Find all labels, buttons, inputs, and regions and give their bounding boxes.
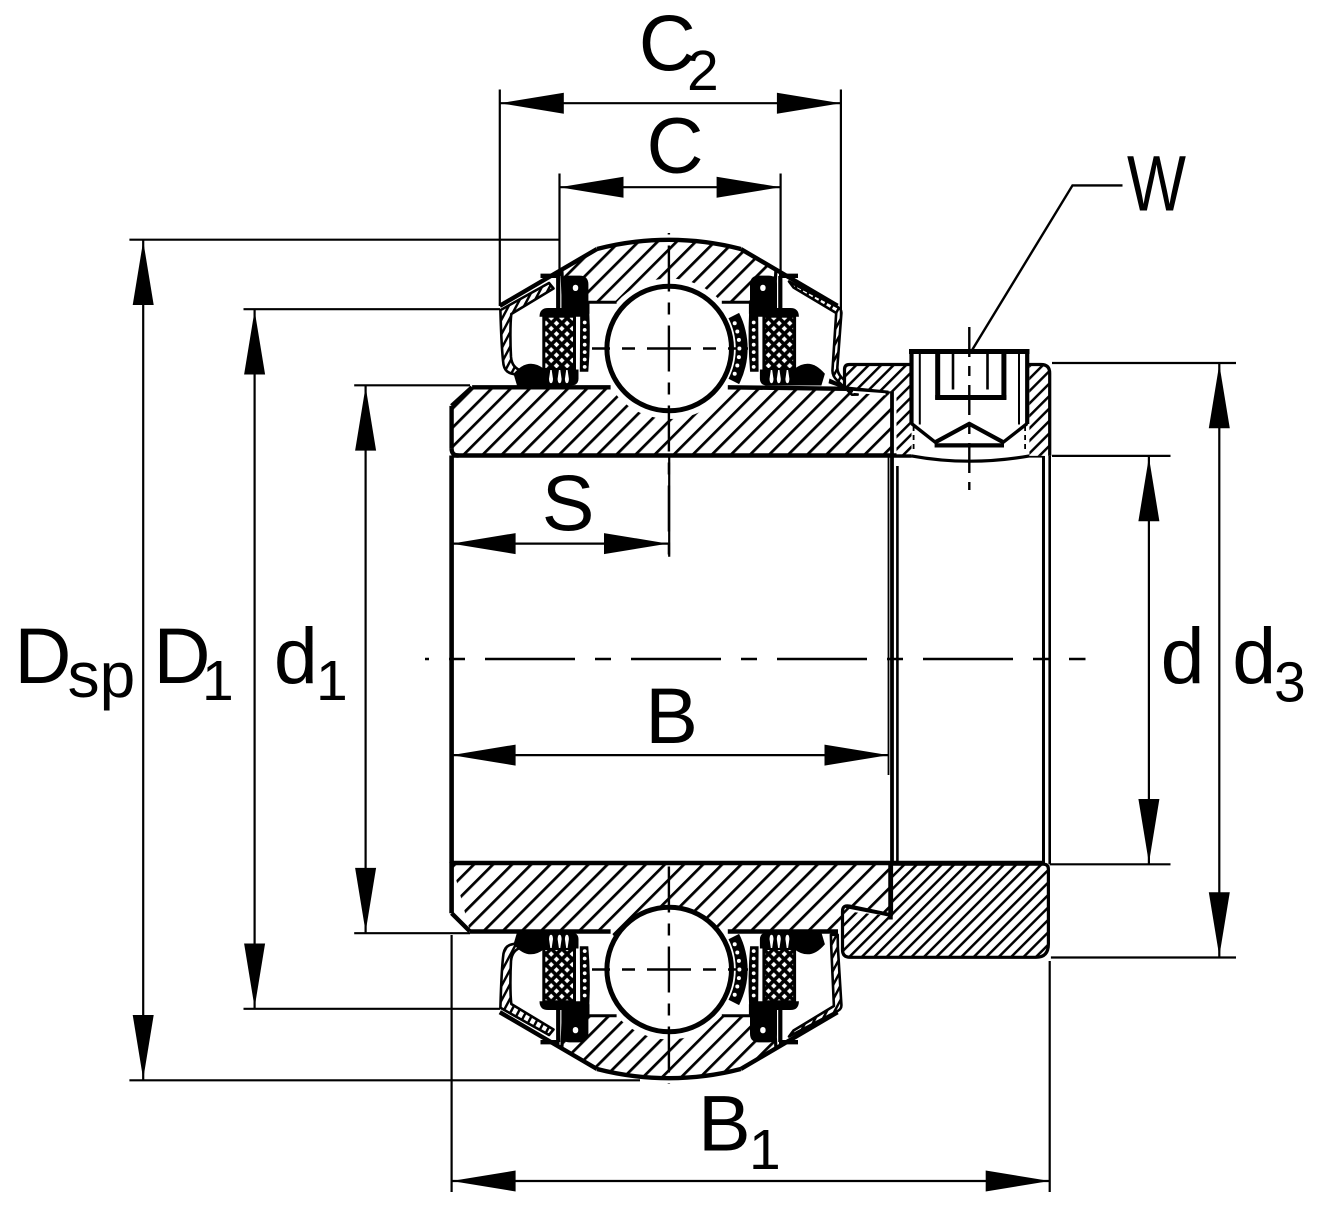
ball top <box>607 286 732 411</box>
ball bottom <box>607 907 732 1032</box>
seal bottom-left <box>540 1001 590 1010</box>
svg-text:sp: sp <box>68 639 136 711</box>
set screw cup point <box>935 424 1004 443</box>
svg-text:2: 2 <box>687 39 719 103</box>
main shaft axis center line <box>425 658 1086 660</box>
dimension S with arrows <box>452 542 668 544</box>
flinger top-right <box>789 282 858 395</box>
flinger top-left <box>500 283 553 384</box>
dimension d3 (collar OD) with extension lines and arrows <box>1052 362 1236 364</box>
crescent bottom-right <box>729 934 748 1005</box>
dimension C2 with extension lines and arrows <box>499 90 501 307</box>
svg-text:C: C <box>647 101 704 190</box>
leader line and label W (set screw) <box>972 185 1123 351</box>
svg-text:d: d <box>274 611 318 700</box>
seal top-left <box>540 308 590 317</box>
flinger bottom-right <box>789 935 841 1037</box>
ball vertical center line (top) <box>668 233 670 557</box>
set screw boss on locking collar <box>912 352 1028 365</box>
dimension D1 with extension lines and arrows <box>244 308 501 310</box>
svg-text:1: 1 <box>749 1118 781 1182</box>
svg-text:W: W <box>1127 139 1186 228</box>
inner ring top section <box>452 387 892 455</box>
seal bottom-right <box>749 1001 799 1010</box>
svg-text:B: B <box>698 1079 751 1168</box>
svg-text:d: d <box>1161 611 1205 700</box>
dimension d (bore) with extension lines and arrows <box>1052 455 1171 457</box>
locking collar bottom <box>843 864 1049 957</box>
crescent top-right <box>729 313 748 384</box>
locking collar top with set screw <box>845 352 1050 461</box>
inner ring bottom section <box>452 863 891 964</box>
svg-text:1: 1 <box>316 649 348 713</box>
svg-text:S: S <box>542 458 595 547</box>
flinger bottom-left <box>500 934 553 1035</box>
set screw axis center line <box>968 327 970 490</box>
svg-text:D: D <box>14 611 71 700</box>
svg-text:d: d <box>1232 611 1276 700</box>
inner ring step lip under collar <box>829 379 889 395</box>
bore and face lines <box>452 453 912 458</box>
dimension C with extension lines and arrows <box>558 174 560 277</box>
set screw hex socket <box>935 353 940 400</box>
dimension B1 with extension lines and arrows <box>451 935 453 1192</box>
outer ring top section <box>562 240 777 314</box>
outer ring bottom section <box>562 1004 777 1078</box>
ball vertical center line (bottom) <box>668 864 670 1084</box>
seal top-right <box>749 308 799 317</box>
svg-text:3: 3 <box>1274 651 1306 715</box>
dimension B with arrows <box>452 754 889 756</box>
svg-text:1: 1 <box>202 649 234 713</box>
dimension Dsp (sphere diameter) with extension lines and arrows <box>129 239 560 241</box>
dimension d1 with extension lines and arrows <box>354 384 470 386</box>
svg-text:B: B <box>645 671 698 760</box>
